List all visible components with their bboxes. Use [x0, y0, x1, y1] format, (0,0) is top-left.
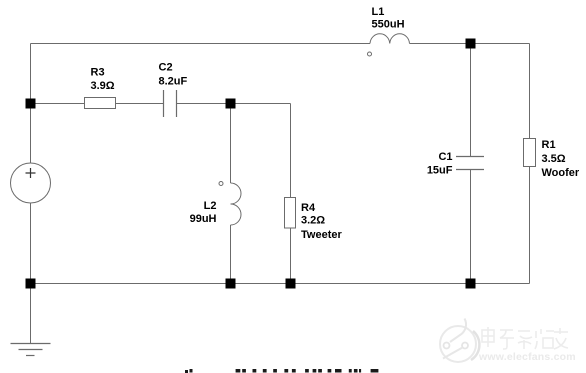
svg-text:3.9Ω: 3.9Ω — [91, 80, 115, 92]
junction node F (bottom rail / R4 branch) — [286, 279, 296, 289]
svg-text:www.elecfans.com: www.elecfans.com — [478, 351, 576, 363]
junction node A (middle rail / left rail) — [26, 99, 36, 109]
wire right rail upper segment — [529, 44, 531, 139]
svg-text:15uF: 15uF — [427, 165, 453, 177]
svg-text:C2: C2 — [159, 62, 173, 74]
wire left rail upper segment — [30, 44, 32, 164]
wire middle rail segment R3 to C2 — [116, 103, 164, 105]
svg-text:R1: R1 — [542, 139, 556, 151]
svg-text:L2: L2 — [204, 200, 217, 212]
inductor L2 — [231, 183, 242, 225]
voltage source V1 — [11, 163, 51, 203]
capacitor C1 — [456, 157, 484, 170]
svg-text:3.2Ω: 3.2Ω — [301, 215, 325, 227]
svg-text:R3: R3 — [91, 67, 105, 79]
svg-text:L1: L1 — [372, 6, 385, 18]
svg-text:3.5Ω: 3.5Ω — [542, 153, 566, 165]
wire bottom rail — [31, 283, 530, 285]
capacitor C2 — [164, 90, 177, 117]
caption text fragment (cut off at bottom edge) — [185, 369, 378, 373]
wire C1 branch upper — [470, 44, 472, 157]
wire middle rail segment C2 to R4 branch — [177, 103, 291, 105]
L1 phase dot — [368, 52, 372, 56]
wire L2 branch lower — [230, 225, 232, 284]
wire middle rail segment source to R3 — [31, 103, 85, 105]
wire C1 branch lower — [470, 170, 472, 284]
ground — [11, 344, 51, 356]
svg-text:Woofer: Woofer — [542, 167, 580, 179]
svg-text:Tweeter: Tweeter — [301, 229, 342, 241]
wire right rail lower segment — [529, 167, 531, 284]
wire L2 branch upper — [230, 104, 232, 184]
wire top rail right segment — [410, 43, 530, 45]
watermark logo circle — [440, 326, 479, 362]
resistor R1 — [524, 139, 536, 167]
wire ground lead — [30, 284, 32, 344]
watermark logo trace — [443, 319, 468, 359]
junction node D (bottom rail / left rail) — [26, 279, 36, 289]
resistor R4 — [285, 198, 296, 229]
svg-text:550uH: 550uH — [372, 18, 405, 30]
wire left rail lower segment — [30, 203, 32, 284]
junction node C (top rail / C1 branch) — [466, 39, 476, 49]
svg-text:C1: C1 — [438, 151, 452, 163]
wire top rail left segment — [31, 43, 371, 45]
svg-text:R4: R4 — [301, 202, 316, 214]
watermark CJK text 电子发烧友 — [482, 327, 568, 349]
wire R4 branch upper — [290, 104, 292, 198]
junction node E (bottom rail / L2 branch) — [226, 279, 236, 289]
L2 phase dot — [219, 182, 223, 186]
svg-text:8.2uF: 8.2uF — [159, 76, 188, 88]
junction node G (bottom rail / C1 branch) — [466, 279, 476, 289]
svg-text:99uH: 99uH — [190, 213, 217, 225]
wire R4 branch lower — [290, 228, 292, 284]
junction node B (middle rail / L2 branch) — [226, 99, 236, 109]
inductor L1 — [370, 34, 410, 44]
resistor R3 — [85, 98, 116, 109]
